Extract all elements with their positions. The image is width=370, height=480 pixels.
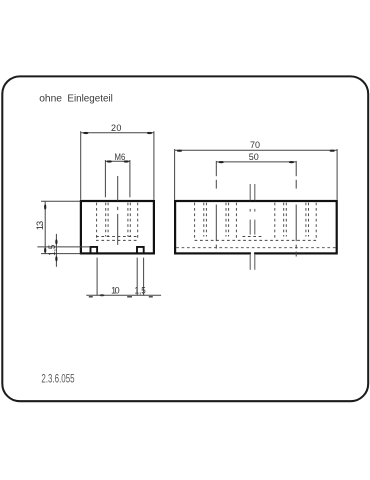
frame border: [2, 76, 368, 401]
left view block outline: [81, 201, 154, 253]
dimension 70: [175, 149, 338, 200]
svg-text:Einlegeteil: Einlegeteil: [67, 92, 112, 104]
right view slot gap in bottom edge: [251, 252, 254, 255]
svg-text:50: 50: [249, 152, 259, 162]
dimension 13: [41, 201, 80, 254]
right view right hole centerline (50 extension): [295, 161, 297, 257]
right view hidden hole lines (dashed): [176, 203, 336, 248]
dimension 1,5 left: [37, 234, 90, 267]
left view hole centerline: [117, 176, 119, 245]
svg-text:10: 10: [111, 286, 120, 296]
right view block outline: [175, 201, 337, 253]
left view left groove notch: [91, 247, 98, 254]
right view left hole centerline (50 extension): [215, 161, 217, 249]
left view right groove notch: [137, 247, 144, 254]
title text "ohne Einlegeteil": [39, 92, 113, 104]
svg-text:ohne: ohne: [39, 92, 62, 104]
left view hidden hole lines (dashed): [96, 203, 138, 241]
dimension 10 and 1,5 bottom: [86, 258, 161, 296]
svg-text:13: 13: [35, 221, 46, 230]
svg-text:1,5: 1,5: [135, 286, 146, 296]
dimension 50: [216, 161, 296, 163]
right view center slot lines: [250, 184, 255, 270]
svg-text:2.3.6.055: 2.3.6.055: [41, 372, 74, 385]
svg-text:1,5: 1,5: [47, 245, 57, 256]
svg-text:70: 70: [250, 140, 260, 150]
dimension 20: [81, 131, 154, 200]
dimension M6: [105, 160, 129, 197]
svg-text:M6: M6: [115, 152, 126, 162]
svg-text:20: 20: [111, 123, 121, 133]
